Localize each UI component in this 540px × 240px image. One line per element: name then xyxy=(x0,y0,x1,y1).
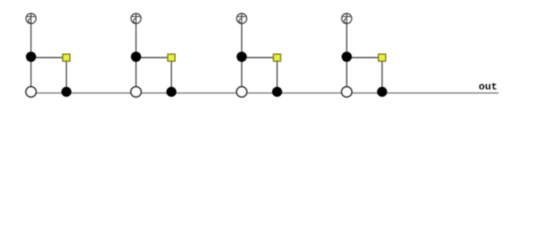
wire from source S3 down to tap node xyxy=(241,24,243,58)
tap node (control dot) xyxy=(342,52,352,62)
adder circle A3 xyxy=(236,87,247,98)
wire from source S2 down to tap node xyxy=(135,24,137,58)
register square R3 xyxy=(273,54,280,61)
adder circle A2 xyxy=(131,87,142,98)
tap node (control dot) xyxy=(237,52,247,62)
register square R2 xyxy=(168,54,175,61)
wire bottom bus to out xyxy=(31,92,499,94)
wire tap node to register square xyxy=(347,57,382,59)
wire register down to bus node xyxy=(381,61,383,92)
tap node (control dot) xyxy=(26,52,36,62)
bus dot B1 xyxy=(61,87,71,97)
wire register down to bus node xyxy=(276,61,278,92)
svg-text:out: out xyxy=(479,82,498,94)
tap node (control dot) xyxy=(131,52,141,62)
source symbol S1 (circle with crossed hook) xyxy=(26,13,36,23)
wire tap node to register square xyxy=(242,57,277,59)
source symbol S4 (circle with crossed hook) xyxy=(342,13,352,23)
wire tap node to register square xyxy=(31,57,66,59)
source symbol S2 (circle with crossed hook) xyxy=(131,13,141,23)
bus dot B4 xyxy=(377,87,387,97)
register square R4 xyxy=(378,54,385,61)
wire tap node down to adder xyxy=(135,58,137,93)
wire register down to bus node xyxy=(170,61,172,92)
wire tap node down to adder xyxy=(346,58,348,93)
wire tap node down to adder xyxy=(241,58,243,93)
wire register down to bus node xyxy=(65,61,67,92)
adder circle A1 xyxy=(26,87,37,98)
wire tap node down to adder xyxy=(30,58,32,93)
bus dot B2 xyxy=(166,87,176,97)
wire from source S1 down to tap node xyxy=(30,24,32,58)
adder circle A4 xyxy=(341,87,352,98)
source symbol S3 (circle with crossed hook) xyxy=(237,13,247,23)
wire from source S4 down to tap node xyxy=(346,24,348,58)
bus dot B3 xyxy=(272,87,282,97)
wire tap node to register square xyxy=(136,57,171,59)
register square R1 xyxy=(63,54,70,61)
